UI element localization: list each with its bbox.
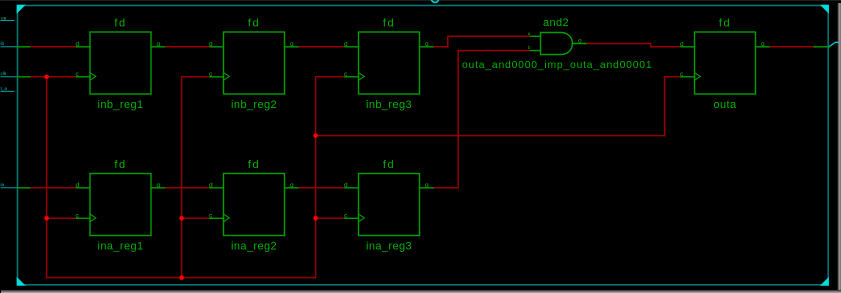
svg-text:ina_reg1: ina_reg1: [97, 240, 143, 252]
svg-text:fd: fd: [719, 18, 731, 30]
svg-text:fd: fd: [383, 18, 395, 30]
svg-text:a: a: [528, 31, 531, 36]
flip-flop U3 inb_reg3 (fd): [344, 18, 435, 111]
svg-text:ib: ib: [1, 41, 5, 46]
svg-text:inb_reg2: inb_reg2: [231, 99, 277, 111]
wire: clock trunk vertical x=46.6: [46, 77, 48, 278]
wire: ina_reg3.q to and2 input b: [435, 51, 530, 188]
junction J5 clock branch to outa.c: [313, 133, 318, 138]
wire: clock branch to ina_reg1.c: [47, 217, 75, 219]
flip-flop U7 outa (fd): [680, 18, 771, 111]
net label outa_and0000_imp_outa_and00001: [462, 60, 652, 71]
svg-text:inb_reg3: inb_reg3: [366, 99, 412, 111]
svg-text:fd: fd: [114, 159, 126, 171]
svg-text:t_a: t_a: [1, 86, 8, 91]
junction J6 clock at ina_reg3.c: [313, 216, 318, 221]
wire: ina_reg1.q to ina_reg2.d: [166, 187, 209, 189]
svg-text:clk: clk: [1, 71, 7, 76]
svg-text:ina_reg2: ina_reg2: [231, 240, 277, 252]
output port outa (right edge connector): [828, 42, 838, 47]
wire: inb_reg1.q to inb_reg2.d: [166, 46, 209, 48]
svg-text:ina_reg3: ina_reg3: [366, 240, 412, 252]
port clk: [1, 71, 18, 77]
wire: inb_reg2.q to inb_reg3.d: [300, 46, 344, 48]
wire: inb_reg3.q to and2 input a: [435, 36, 530, 47]
junction J1 clock at inb_reg1.c: [44, 75, 49, 80]
wire: clock net port entry: [18, 76, 76, 78]
svg-text:outa_and0000_imp_outa_and00001: outa_and0000_imp_outa_and00001: [462, 60, 652, 71]
svg-text:fd: fd: [248, 18, 260, 30]
wire: port ib to inb_reg1.d: [18, 46, 76, 48]
wire: and2 output to outa.d: [587, 44, 679, 47]
svg-text:fd: fd: [114, 18, 126, 30]
port ia: [1, 182, 18, 188]
wire: ina_reg2.q to ina_reg3.d: [300, 187, 344, 189]
junction J4 clock at ina_reg2.c: [179, 216, 184, 221]
svg-text:outa: outa: [713, 99, 736, 111]
junction J3 clock bottom x=181.6: [179, 275, 184, 280]
wire: clock branch to ina_reg3.c: [316, 217, 344, 219]
port ea (top-left input marker): [1, 15, 14, 20]
wire: clock trunk vertical x=181.6: [182, 77, 209, 278]
svg-text:fd: fd: [383, 159, 395, 171]
wire: clock trunk vertical x=315.6: [316, 77, 344, 278]
svg-text:ea: ea: [1, 15, 7, 20]
junction J2 clock at ina_reg1.c: [44, 216, 49, 221]
svg-text:b: b: [528, 45, 531, 50]
flip-flop U6 ina_reg3 (fd): [344, 159, 435, 252]
port t_a: [1, 86, 15, 91]
wire: outa.q to output port: [771, 46, 829, 48]
svg-text:fd: fd: [248, 159, 260, 171]
flip-flop U4 ina_reg1 (fd): [75, 159, 166, 252]
wire: clock bottom horizontal: [47, 277, 316, 279]
svg-text:and2: and2: [543, 17, 569, 29]
and-gate G1 and2: [528, 17, 588, 55]
svg-text:ia: ia: [1, 182, 5, 187]
wire: port ia to ina_reg1.d: [18, 187, 76, 189]
flip-flop U2 inb_reg2 (fd): [209, 18, 300, 111]
wire: clock branch to ina_reg2.c: [182, 217, 209, 219]
port ib: [1, 41, 18, 47]
flip-flop U1 inb_reg1 (fd): [75, 18, 166, 111]
svg-text:inb_reg1: inb_reg1: [97, 99, 143, 111]
flip-flop U5 ina_reg2 (fd): [209, 159, 300, 252]
wire: clock branch to outa.c: [316, 77, 680, 136]
